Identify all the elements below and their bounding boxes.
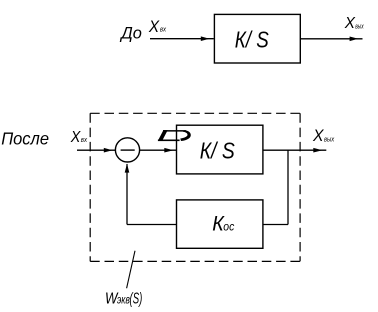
- svg-text:вх: вх: [81, 137, 88, 144]
- wire bottom output: [263, 149, 326, 151]
- svg-text:До: До: [119, 23, 142, 42]
- svg-text:вых: вых: [324, 137, 335, 144]
- svg-text:вых: вых: [355, 23, 364, 30]
- svg-text:К/ S: К/ S: [235, 27, 269, 53]
- svg-text:(S): (S): [130, 291, 143, 308]
- dashed equivalent-system box (right edge): [299, 113, 301, 261]
- wire input to top block: [150, 38, 214, 40]
- dashed equivalent-system box (bottom edge): [90, 260, 300, 262]
- wire output of top block: [300, 38, 362, 40]
- arrowhead into summing junction (from below): [125, 164, 130, 173]
- svg-text:ос: ос: [223, 219, 234, 233]
- leader line to Wэкв label: [127, 251, 135, 289]
- wire feedback into Кос block: [263, 224, 288, 226]
- wire feedback out of Кос block: [127, 224, 177, 226]
- dashed equivalent-system box (top edge): [90, 112, 300, 114]
- annotation "D" glyph (error signal): [158, 130, 191, 141]
- arrowhead into bottom K/S block: [164, 148, 173, 153]
- svg-text:X: X: [70, 129, 81, 146]
- block U3 "Кос" (feedback): [177, 200, 263, 248]
- block U1 "К/S" (open-loop plant): [214, 14, 300, 63]
- svg-text:вх: вх: [160, 26, 167, 33]
- label "Wэкв(S)": [105, 290, 142, 307]
- arrowhead bottom output: [313, 148, 322, 153]
- block U2 "К/S" (forward path): [177, 125, 263, 174]
- svg-text:экв: экв: [117, 292, 130, 306]
- svg-text:X: X: [312, 127, 324, 145]
- arrowhead top output: [350, 37, 359, 42]
- arrowhead into top block: [201, 36, 210, 41]
- node Xвх (top input): [148, 18, 167, 36]
- dashed equivalent-system box (left edge): [89, 113, 91, 261]
- svg-text:К/ S: К/ S: [200, 137, 235, 163]
- svg-text:X: X: [148, 18, 160, 36]
- wire bottom input: [77, 149, 116, 151]
- wire summing junction to K/S block: [140, 149, 177, 151]
- wire feedback up to summing junction: [126, 164, 128, 225]
- summing junction: [115, 138, 139, 162]
- arrowhead into summing junction: [104, 148, 113, 153]
- node Xвых (top output): [344, 15, 364, 32]
- svg-text:После: После: [1, 128, 49, 148]
- value label "Кос": [212, 212, 234, 236]
- node Xвх (bottom input): [70, 129, 88, 146]
- wire feedback tap (vertical): [287, 150, 289, 224]
- minus sign inside summing junction: [121, 149, 135, 151]
- node Xвых (bottom output): [312, 127, 335, 145]
